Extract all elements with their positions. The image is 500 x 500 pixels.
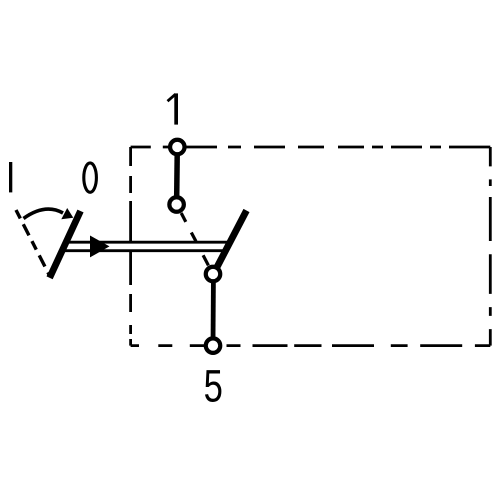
enclosure box left edge (dash-dot): [129, 147, 132, 346]
switch lever arm: [216, 211, 247, 271]
enclosure box bottom edge (dash-dot): [131, 344, 491, 347]
dashed coupling wire segment a: [181, 213, 186, 222]
terminal circle 1: [170, 140, 185, 155]
actuator shaft double line upper: [66, 241, 230, 244]
actuator shaft double line lower: [62, 249, 226, 252]
label 1 (flag): [168, 94, 176, 101]
contact circle upper: [169, 197, 184, 212]
wire pivot to terminal 5: [211, 283, 216, 346]
svg-text:5: 5: [204, 360, 223, 412]
dashed coupling wire segment c: [203, 255, 208, 265]
terminal circle 5: [206, 338, 221, 353]
enclosure box top edge (dash-dot): [131, 146, 491, 149]
actuator lever solid position 0: [50, 211, 81, 278]
label I: [9, 162, 12, 192]
actuator lever dashed position I: [16, 210, 50, 276]
pivot contact circle: [206, 267, 221, 282]
motion arc arrow: [24, 209, 64, 218]
enclosure box right edge (dash-dot): [489, 147, 492, 346]
dashed coupling wire segment b: [191, 233, 196, 242]
motion arc arrowhead: [61, 208, 73, 219]
label 0: [84, 163, 97, 192]
wire terminal 1 to moving contact: [174, 147, 180, 205]
shaft arrowhead: [90, 236, 110, 258]
label 1 (stem): [174, 93, 178, 124]
